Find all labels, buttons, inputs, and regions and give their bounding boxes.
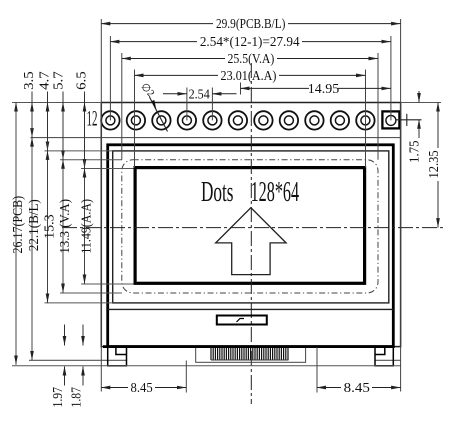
dim 29.9 (PCB.B/L) xyxy=(101,17,400,32)
pad 5 (round) xyxy=(280,111,298,129)
pad 6 (round) xyxy=(254,111,272,129)
backlight bottom extension left xyxy=(29,359,127,361)
connector hatch xyxy=(211,348,288,360)
pad center extension right xyxy=(396,119,422,121)
pad 1 (square) xyxy=(382,111,399,128)
PCB left extension column xyxy=(100,19,102,392)
extension V.A left top xyxy=(121,53,123,160)
right foot notch xyxy=(375,347,385,355)
hatch bottom line xyxy=(211,359,289,361)
phi hole label xyxy=(138,81,167,131)
svg-text:29.9(PCB.B/L): 29.9(PCB.B/L) xyxy=(216,17,286,32)
A.A bottom extension xyxy=(81,283,134,285)
extension A.A left top xyxy=(134,70,136,168)
extension 8.45 left inner xyxy=(185,361,187,393)
right foot tab xyxy=(375,347,393,366)
PCB top extension left xyxy=(12,102,101,104)
arrow pictogram xyxy=(216,208,286,275)
dim 14.95 xyxy=(241,82,391,97)
extension V.A right top xyxy=(377,53,379,160)
pad 9 (round) xyxy=(178,111,196,129)
svg-text:26.17(PCB): 26.17(PCB) xyxy=(11,196,26,254)
viewing area V.A dashed rounded rect xyxy=(122,160,378,293)
connector outline xyxy=(196,347,306,362)
svg-text:8.45: 8.45 xyxy=(344,381,370,396)
left dim 5.7 + 13.3 (V.A) xyxy=(52,71,74,293)
extension pad1 center top xyxy=(109,36,111,120)
A.A top extension xyxy=(81,168,134,170)
PCB outline xyxy=(101,103,400,347)
svg-text:∅2: ∅2 xyxy=(138,81,156,99)
bottom dim 8.45 left xyxy=(101,381,186,396)
V.A bottom extension xyxy=(60,292,122,294)
glass top extension xyxy=(45,150,113,152)
svg-text:15.3: 15.3 xyxy=(43,214,58,239)
holder step line xyxy=(108,308,394,310)
V.A top extension xyxy=(60,159,122,161)
svg-text:1.87: 1.87 xyxy=(70,387,85,407)
pad 7 (round) xyxy=(229,111,247,129)
left foot tab xyxy=(108,347,127,366)
dim 2.54 pad pitch xyxy=(163,87,237,120)
dim 25.5 (V.A) xyxy=(122,52,378,67)
backlight bottom extension right xyxy=(375,359,401,361)
left dim 26.17(PCB) xyxy=(11,103,26,365)
svg-text:8.45: 8.45 xyxy=(131,381,153,396)
PCB right extension column xyxy=(400,19,402,392)
dim 2.54*(12-1)=27.94 xyxy=(110,35,391,50)
svg-text:13.3 (V.A): 13.3 (V.A) xyxy=(58,199,73,254)
svg-text:11.49(A.A): 11.49(A.A) xyxy=(80,199,95,254)
extension A.A right top xyxy=(365,70,367,168)
svg-text:128*64: 128*64 xyxy=(251,177,300,208)
svg-text:3.5: 3.5 xyxy=(22,71,37,90)
bottom dim 1.97 xyxy=(51,325,66,408)
svg-text:4.7: 4.7 xyxy=(38,71,53,90)
vertical centerline xyxy=(250,63,252,404)
right dim 12.35 xyxy=(427,103,442,228)
svg-text:5.7: 5.7 xyxy=(52,71,67,90)
svg-text:1.75: 1.75 xyxy=(407,140,422,163)
svg-text:12.35: 12.35 xyxy=(427,150,442,178)
pad 2 (round) xyxy=(356,111,374,129)
PCB bottom thick holder edge xyxy=(103,345,395,348)
active area A.A thick box xyxy=(135,168,365,284)
pad 4 (round) xyxy=(305,111,323,129)
svg-text:2.54: 2.54 xyxy=(189,87,210,102)
svg-text:1.97: 1.97 xyxy=(51,387,66,407)
svg-text:Dots: Dots xyxy=(201,177,234,208)
svg-text:25.5(V.A): 25.5(V.A) xyxy=(228,52,275,67)
pad 3 (round) xyxy=(331,111,349,129)
svg-text:2.54*(12-1)=27.94: 2.54*(12-1)=27.94 xyxy=(200,35,300,50)
left foot notch xyxy=(116,347,127,355)
extension pad12 center top xyxy=(390,36,392,120)
dim 23.01 (A.A) xyxy=(135,69,366,84)
svg-text:22.1(B/L): 22.1(B/L) xyxy=(27,199,42,251)
PCB top extension right xyxy=(401,102,441,104)
feet bottom extension line xyxy=(12,365,401,367)
bottom dim 8.45 right xyxy=(317,381,401,396)
svg-text:14.95: 14.95 xyxy=(308,82,340,97)
pad 8 (round) xyxy=(203,111,221,129)
bezel frame holder xyxy=(108,145,394,347)
small connector feature xyxy=(217,316,267,325)
pad center tick xyxy=(406,114,408,126)
horizontal centerline xyxy=(62,227,444,229)
left dim 3.5 + 22.1(B/L) xyxy=(22,71,42,360)
left dim 4.7 + 15.3 xyxy=(38,71,58,303)
pad 12 (round) xyxy=(101,111,119,129)
pad 11 (round) xyxy=(127,111,145,129)
extension 8.45 right inner xyxy=(316,347,318,393)
svg-text:23.01(A.A): 23.01(A.A) xyxy=(221,69,277,84)
right dim 1.75 xyxy=(407,91,422,163)
glass bottom extension xyxy=(45,302,113,304)
LCD glass outline xyxy=(113,151,389,303)
svg-text:6.5: 6.5 xyxy=(75,71,90,90)
left dim 6.5 + 11.49(A.A) xyxy=(75,71,95,284)
bottom dim 1.87 xyxy=(70,325,85,408)
backlight top edge B/L xyxy=(31,137,401,139)
pad 10 (round) xyxy=(152,111,170,129)
svg-text:12: 12 xyxy=(87,106,98,131)
